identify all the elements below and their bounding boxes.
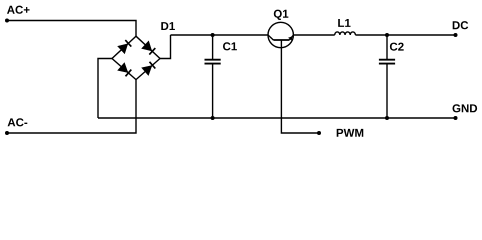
- wire AC+ horizontal from AC+ terminal to bridge top: [7, 21, 136, 37]
- transistor Q1 (NPN, collector left, emitter right, base down): [268, 22, 293, 47]
- label DC: [453, 21, 469, 29]
- inductor L1: [335, 32, 356, 35]
- diode D1 bottom-left (anode left corner, cathode bottom corner): [118, 63, 132, 77]
- terminal PWM: [317, 131, 321, 135]
- bridge rectifier D1 frame (diamond wires): [112, 36, 160, 79]
- label L1: [338, 19, 350, 27]
- wire ground rail: [98, 117, 456, 119]
- label GND: [453, 104, 478, 112]
- terminal AC+: [5, 19, 9, 23]
- wire L1 to DC terminal: [355, 34, 455, 36]
- wire Q1 base down to PWM: [281, 48, 319, 133]
- diode D1 top-right (anode top corner, cathode right corner): [142, 41, 156, 55]
- junction C1 top rail: [211, 33, 215, 37]
- wire bridge minus (left corner) to ground rail: [98, 59, 112, 119]
- wire AC- horizontal from AC- terminal to bridge bottom: [7, 80, 136, 133]
- label AC+: [7, 6, 30, 14]
- capacitor C2: [379, 35, 395, 118]
- wire Q1 emitter to inductor L1: [293, 34, 334, 36]
- wire top rail from bridge to Q1 collector: [171, 34, 269, 36]
- diode D1 top-left (anode left corner, cathode top corner): [118, 40, 132, 54]
- label C1: [223, 42, 237, 50]
- junction C2 ground rail: [385, 116, 389, 120]
- capacitor C1: [205, 35, 221, 118]
- terminal GND: [454, 116, 458, 120]
- diode D1 bottom-right (anode bottom corner, cathode right corner): [142, 62, 156, 76]
- label D1: [161, 22, 175, 30]
- junction C2 top rail: [385, 33, 389, 37]
- wire bridge plus (right corner) up to top rail: [160, 35, 171, 59]
- label PWM: [337, 129, 364, 137]
- junction C1 ground rail: [211, 116, 215, 120]
- terminal AC-: [5, 131, 9, 135]
- label Q1: [274, 10, 289, 20]
- label C2: [390, 43, 404, 51]
- label AC-: [8, 118, 28, 126]
- terminal DC: [454, 33, 458, 37]
